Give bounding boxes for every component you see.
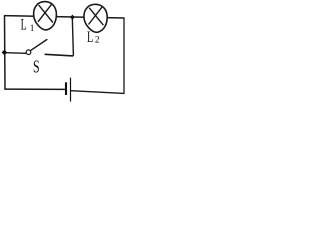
svg-text:2: 2 (95, 36, 100, 46)
svg-text:L: L (21, 16, 27, 34)
svg-text:S: S (33, 56, 40, 76)
wire switch right (45, 54, 74, 56)
wire left vertical (4, 15, 7, 90)
wire switch left (5, 52, 27, 55)
junction node top (70, 15, 75, 20)
lamp L2 (84, 4, 107, 32)
wire right vertical (123, 17, 125, 94)
wire middle vertical (72, 17, 73, 56)
battery negative short plate (65, 82, 67, 95)
switch S contact circle (26, 50, 31, 55)
svg-text:L: L (87, 28, 93, 46)
wire top horizontal (5, 16, 125, 18)
wire bottom right (71, 91, 124, 94)
junction node left (2, 50, 8, 56)
battery positive long plate (70, 78, 72, 102)
switch S lever (31, 40, 47, 51)
lamp L1 (34, 2, 57, 30)
svg-text:1: 1 (30, 24, 35, 34)
wire bottom left (4, 88, 65, 90)
